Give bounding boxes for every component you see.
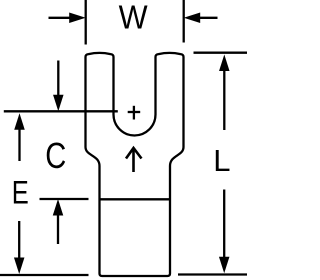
C top arrow (down toward centerline) — [53, 61, 64, 112]
W left arrow — [49, 13, 86, 23]
svg-text:C: C — [45, 135, 66, 176]
svg-text:E: E — [12, 174, 29, 210]
W right arrow — [184, 13, 218, 23]
barrel top line — [100, 198, 170, 200]
svg-text:L: L — [213, 143, 230, 178]
W left extension line — [85, 0, 87, 45]
C bottom arrow (up toward barrel line) — [53, 199, 64, 244]
centerline through slot center — [4, 110, 118, 112]
svg-text:W: W — [119, 0, 149, 35]
plus mark at slot center — [128, 106, 141, 120]
upward arrow glyph inside body — [126, 148, 142, 172]
W right extension line — [183, 0, 185, 43]
E extension line segment — [40, 198, 89, 200]
E bottom arrow (down toward bottom line) — [14, 221, 25, 274]
bottom-left extension line — [0, 274, 89, 276]
E top arrow (up toward centerline) — [14, 113, 25, 161]
L top extension line — [194, 52, 248, 54]
fork terminal outline — [86, 53, 184, 276]
L down arrow — [219, 190, 230, 274]
L up arrow — [219, 55, 230, 131]
bottom-right extension line — [178, 273, 247, 275]
